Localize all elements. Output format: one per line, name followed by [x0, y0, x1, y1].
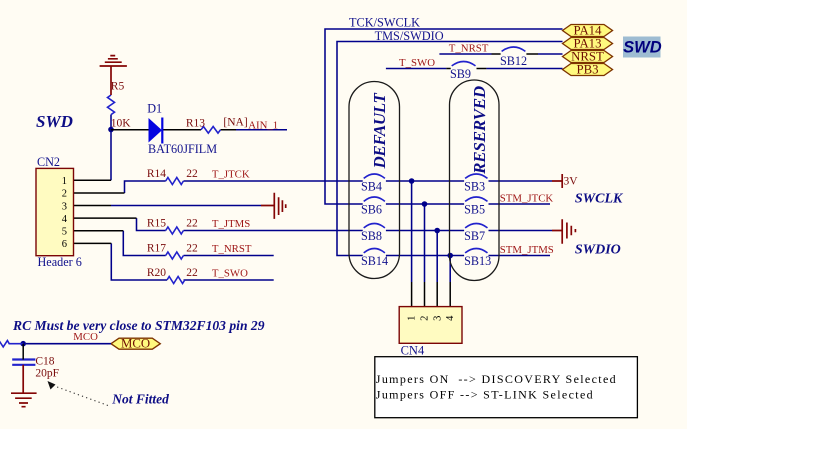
svg-text:C18: C18	[35, 355, 54, 367]
svg-text:T_NRST: T_NRST	[449, 42, 489, 54]
svg-text:Jumpers ON --> DISCOVERY Sele: Jumpers ON --> DISCOVERY Selected	[376, 372, 617, 386]
svg-text:MCO: MCO	[73, 331, 98, 343]
svg-text:CN2: CN2	[37, 155, 60, 169]
svg-text:R14: R14	[147, 168, 166, 180]
svg-text:PA14: PA14	[574, 24, 603, 38]
svg-text:SWCLK: SWCLK	[575, 192, 624, 207]
svg-text:T_SWO: T_SWO	[399, 57, 435, 69]
svg-text:D1: D1	[147, 102, 162, 116]
svg-text:BAT60JFILM: BAT60JFILM	[148, 142, 217, 156]
svg-text:STM_JTMS: STM_JTMS	[500, 244, 554, 256]
svg-text:[NA]: [NA]	[223, 117, 247, 129]
svg-text:6: 6	[62, 239, 67, 250]
svg-text:22: 22	[186, 168, 198, 180]
svg-text:PA13: PA13	[574, 37, 602, 51]
svg-text:R5: R5	[111, 81, 125, 93]
svg-text:SB9: SB9	[450, 67, 471, 81]
svg-text:Not Fitted: Not Fitted	[111, 392, 169, 407]
svg-text:T_JTMS: T_JTMS	[212, 218, 250, 230]
svg-text:SB13: SB13	[464, 254, 491, 268]
svg-text:SB12: SB12	[500, 54, 527, 68]
svg-text:NRST: NRST	[571, 50, 604, 64]
svg-text:TMS/SWDIO: TMS/SWDIO	[375, 29, 444, 43]
svg-text:SB5: SB5	[464, 203, 485, 217]
svg-text:SWDIO: SWDIO	[575, 242, 621, 257]
svg-text:T_JTCK: T_JTCK	[212, 169, 250, 181]
svg-text:1: 1	[407, 316, 418, 321]
svg-text:T_NRST: T_NRST	[212, 243, 252, 255]
svg-text:10K: 10K	[111, 118, 132, 130]
svg-text:SB7: SB7	[464, 229, 485, 243]
svg-text:SB14: SB14	[361, 254, 388, 268]
svg-text:SB8: SB8	[361, 229, 382, 243]
svg-text:2: 2	[62, 189, 67, 200]
svg-text:R20: R20	[147, 267, 166, 279]
svg-text:R13: R13	[186, 118, 205, 130]
svg-text:22: 22	[186, 218, 198, 230]
svg-text:SB3: SB3	[464, 180, 485, 194]
svg-text:Header 6: Header 6	[38, 255, 82, 269]
svg-text:SWD: SWD	[36, 112, 73, 131]
svg-text:22: 22	[186, 267, 198, 279]
svg-text:SB4: SB4	[361, 180, 382, 194]
svg-text:RESERVED: RESERVED	[470, 86, 489, 175]
svg-text:Jumpers OFF --> ST-LINK Select: Jumpers OFF --> ST-LINK Selected	[376, 388, 594, 402]
svg-text:STM_JTCK: STM_JTCK	[500, 193, 554, 205]
svg-text:R17: R17	[147, 243, 166, 255]
svg-text:3: 3	[62, 201, 67, 212]
svg-text:RC Must be very close to STM32: RC Must be very close to STM32F103 pin 2…	[12, 318, 265, 333]
svg-text:T_SWO: T_SWO	[212, 268, 248, 280]
svg-text:1: 1	[62, 176, 67, 187]
svg-text:CN4: CN4	[401, 344, 425, 358]
svg-text:PB3: PB3	[576, 63, 598, 77]
svg-text:4: 4	[62, 214, 68, 225]
svg-text:R15: R15	[147, 218, 166, 230]
svg-text:AIN_1: AIN_1	[248, 119, 278, 131]
svg-text:SWD: SWD	[623, 39, 662, 57]
svg-text:DEFAULT: DEFAULT	[370, 93, 389, 170]
svg-text:4: 4	[445, 315, 456, 321]
svg-text:3V: 3V	[564, 176, 579, 188]
svg-text:SB6: SB6	[361, 203, 382, 217]
svg-text:20pF: 20pF	[35, 368, 59, 380]
svg-text:22: 22	[186, 243, 198, 255]
svg-text:TCK/SWCLK: TCK/SWCLK	[349, 16, 420, 30]
svg-text:3: 3	[432, 316, 443, 321]
svg-text:2: 2	[420, 316, 431, 321]
svg-text:5: 5	[62, 227, 67, 238]
svg-text:MCO: MCO	[121, 337, 150, 351]
